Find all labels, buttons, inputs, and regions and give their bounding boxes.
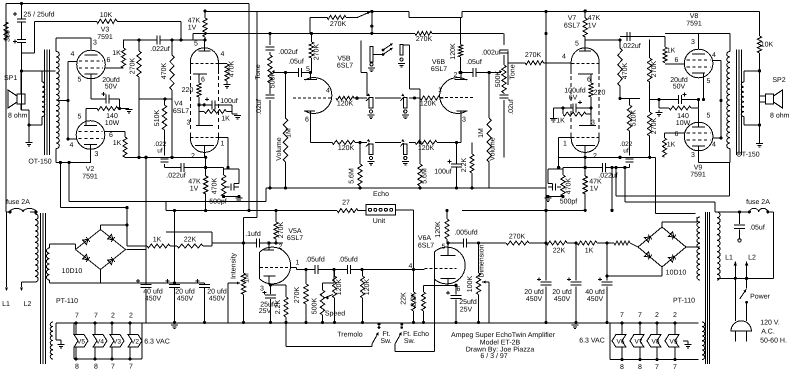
svg-text:7591: 7591 [690, 172, 706, 179]
svg-text:510K: 510K [154, 110, 161, 127]
svg-text:PT-110: PT-110 [56, 298, 78, 305]
svg-text:Sw.: Sw. [404, 338, 415, 345]
svg-text:6: 6 [675, 57, 679, 64]
svg-text:50V: 50V [673, 84, 686, 91]
svg-text:20 ufd: 20 ufd [207, 288, 227, 296]
svg-text:47K: 47K [588, 15, 601, 22]
svg-text:V7: V7 [635, 339, 643, 346]
svg-text:7591: 7591 [82, 174, 98, 181]
svg-text:6.3 VAC: 6.3 VAC [579, 338, 605, 345]
svg-text:Ampeg Super EchoTwin Amplifier: Ampeg Super EchoTwin Amplifier [451, 331, 556, 339]
svg-text:2.2K: 2.2K [411, 292, 418, 307]
svg-text:.02uf: .02uf [507, 99, 515, 115]
svg-text:5: 5 [575, 41, 579, 48]
svg-text:1: 1 [296, 260, 300, 267]
svg-text:20 ufd: 20 ufd [175, 288, 195, 296]
svg-text:Power: Power [750, 294, 771, 301]
svg-text:4: 4 [409, 263, 413, 270]
svg-text:.05uf: .05uf [749, 224, 765, 232]
svg-text:uf: uf [623, 148, 629, 155]
svg-text:10D10: 10D10 [666, 270, 687, 277]
svg-text:22K: 22K [553, 248, 566, 255]
svg-text:270K: 270K [509, 234, 526, 241]
svg-text:270K: 270K [651, 61, 658, 78]
svg-text:7591: 7591 [686, 21, 702, 28]
svg-text:2: 2 [454, 72, 458, 79]
svg-text:1M: 1M [286, 128, 293, 138]
svg-text:.05ufd: .05ufd [338, 256, 358, 264]
svg-text:.022uf: .022uf [150, 45, 170, 53]
svg-text:2: 2 [673, 312, 677, 319]
svg-text:25V: 25V [460, 307, 473, 314]
svg-text:.02uf: .02uf [255, 99, 263, 115]
svg-text:3: 3 [691, 152, 695, 159]
svg-text:2: 2 [593, 153, 597, 160]
svg-text:10K: 10K [761, 42, 774, 49]
svg-text:OT-150: OT-150 [28, 159, 51, 166]
svg-text:270K: 270K [330, 21, 347, 28]
svg-text:47K: 47K [188, 18, 201, 25]
svg-text:1: 1 [563, 141, 567, 148]
svg-text:470K: 470K [566, 178, 573, 195]
svg-text:6SL7: 6SL7 [431, 66, 447, 73]
svg-text:4: 4 [70, 142, 74, 149]
svg-text:450V: 450V [587, 296, 604, 303]
svg-text:330: 330 [5, 30, 12, 42]
svg-text:6SL7: 6SL7 [337, 63, 353, 70]
svg-text:Ft.: Ft. [382, 331, 390, 338]
svg-text:V4: V4 [174, 101, 183, 108]
svg-text:5.6M: 5.6M [422, 168, 429, 184]
svg-text:Speed: Speed [325, 310, 345, 318]
svg-text:5: 5 [78, 114, 82, 121]
svg-text:470K: 470K [161, 63, 168, 80]
svg-text:V6: V6 [617, 339, 625, 346]
svg-text:8: 8 [94, 364, 98, 371]
svg-text:140: 140 [677, 113, 689, 120]
svg-text:Echo: Echo [373, 190, 389, 198]
svg-text:V6B: V6B [432, 59, 446, 66]
svg-text:4: 4 [712, 142, 716, 149]
svg-text:120K: 120K [338, 145, 355, 152]
svg-text:5: 5 [707, 113, 711, 120]
svg-text:120 V.: 120 V. [760, 320, 780, 327]
svg-text:470K: 470K [229, 61, 236, 78]
svg-text:500K: 500K [312, 298, 319, 315]
svg-text:510K: 510K [631, 110, 638, 127]
svg-text:6SL7: 6SL7 [287, 235, 303, 242]
svg-text:270K: 270K [314, 44, 321, 61]
svg-text:1K: 1K [112, 50, 121, 57]
svg-text:V4: V4 [96, 339, 104, 346]
svg-text:6 / 3 / 97: 6 / 3 / 97 [480, 352, 507, 360]
svg-text:V2: V2 [86, 166, 95, 173]
svg-text:4: 4 [71, 51, 75, 58]
svg-text:.002uf: .002uf [481, 49, 501, 57]
svg-text:4: 4 [221, 51, 225, 58]
svg-text:100K: 100K [467, 276, 474, 293]
svg-text:270K: 270K [278, 222, 285, 239]
svg-text:L2: L2 [748, 255, 756, 262]
svg-text:2: 2 [129, 313, 133, 320]
svg-text:1: 1 [221, 141, 225, 148]
svg-text:Model ET-2B: Model ET-2B [480, 339, 521, 347]
svg-text:Unit: Unit [373, 217, 386, 225]
svg-text:V8: V8 [652, 339, 660, 346]
svg-text:20 ufd: 20 ufd [524, 288, 544, 296]
svg-text:1M: 1M [244, 273, 251, 283]
svg-text:5: 5 [194, 41, 198, 48]
svg-text:Tremolo: Tremolo [337, 331, 363, 339]
svg-text:100uf: 100uf [434, 168, 452, 176]
svg-text:5: 5 [707, 78, 711, 85]
svg-text:2: 2 [111, 313, 115, 320]
svg-text:3: 3 [260, 286, 264, 293]
svg-text:5: 5 [78, 77, 82, 84]
svg-text:50V: 50V [105, 84, 118, 91]
svg-text:V2: V2 [131, 339, 139, 346]
svg-text:40 ufd: 40 ufd [585, 288, 605, 296]
svg-text:SP2: SP2 [772, 77, 785, 84]
svg-text:Ft. Echo: Ft. Echo [403, 330, 429, 338]
svg-text:1K: 1K [556, 118, 565, 125]
svg-text:1K: 1K [221, 116, 230, 123]
svg-text:Tone: Tone [255, 64, 262, 79]
svg-text:6: 6 [107, 57, 111, 64]
svg-text:5.6M: 5.6M [349, 168, 356, 184]
svg-text:V8: V8 [690, 13, 699, 20]
svg-text:120K: 120K [435, 221, 442, 238]
svg-text:3: 3 [462, 117, 466, 124]
svg-text:6: 6 [109, 132, 113, 139]
svg-text:2.2K: 2.2K [461, 157, 468, 172]
svg-text:.05ufd: .05ufd [305, 256, 325, 264]
svg-text:L1: L1 [725, 255, 733, 262]
svg-text:470K: 470K [622, 63, 629, 80]
svg-text:8: 8 [638, 364, 642, 371]
svg-text:2: 2 [191, 153, 195, 160]
svg-text:.002uf: .002uf [278, 48, 298, 56]
svg-text:22K: 22K [401, 292, 408, 305]
svg-text:7: 7 [129, 364, 133, 371]
svg-text:25ufd: 25ufd [459, 298, 477, 306]
svg-text:1K: 1K [113, 140, 122, 147]
svg-text:fuse 2A: fuse 2A [6, 198, 30, 206]
svg-text:3: 3 [691, 39, 695, 46]
svg-text:2: 2 [279, 244, 283, 251]
svg-text:20 ufd: 20 ufd [552, 288, 572, 296]
svg-text:7: 7 [111, 364, 115, 371]
svg-text:47K: 47K [188, 179, 201, 186]
svg-text:1K: 1K [153, 237, 162, 244]
svg-text:450V: 450V [554, 296, 571, 303]
svg-text:270K: 270K [294, 287, 301, 304]
svg-text:V9: V9 [694, 165, 703, 172]
svg-text:L1: L1 [2, 301, 10, 308]
svg-text:120K: 120K [364, 279, 371, 296]
svg-text:V5A: V5A [288, 228, 302, 235]
svg-text:PT-110: PT-110 [673, 298, 695, 305]
svg-text:25V: 25V [259, 308, 272, 315]
svg-text:8 ohm: 8 ohm [8, 112, 28, 120]
svg-text:500pf: 500pf [209, 198, 227, 206]
svg-text:22K: 22K [184, 237, 197, 244]
svg-text:.1ufd: .1ufd [245, 230, 261, 238]
svg-text:1: 1 [438, 87, 442, 94]
svg-text:V6A: V6A [418, 235, 432, 242]
svg-text:6SL7: 6SL7 [564, 23, 580, 30]
svg-text:Volume: Volume [489, 137, 497, 160]
svg-text:.05uf: .05uf [288, 58, 304, 66]
svg-text:1K: 1K [667, 142, 676, 149]
svg-text:6V: 6V [569, 95, 578, 102]
svg-text:OT-150: OT-150 [736, 152, 759, 159]
svg-text:1K: 1K [585, 248, 594, 255]
svg-text:7: 7 [94, 313, 98, 320]
svg-text:10D10: 10D10 [62, 268, 83, 275]
svg-text:120K: 120K [420, 101, 437, 108]
svg-text:1V: 1V [190, 186, 199, 193]
svg-text:7591: 7591 [97, 34, 113, 41]
svg-text:140: 140 [106, 113, 118, 120]
svg-text:2: 2 [655, 312, 659, 319]
svg-text:120K: 120K [337, 101, 354, 108]
svg-text:6: 6 [305, 117, 309, 124]
svg-text:7: 7 [75, 313, 79, 320]
svg-text:1V: 1V [590, 186, 599, 193]
svg-text:V3: V3 [101, 27, 110, 34]
svg-text:450V: 450V [145, 296, 162, 303]
svg-text:25 / 25ufd: 25 / 25ufd [23, 11, 54, 19]
svg-text:V7: V7 [568, 15, 577, 22]
svg-text:Sw.: Sw. [380, 338, 391, 345]
svg-text:5: 5 [306, 66, 310, 73]
svg-text:6.3 VAC: 6.3 VAC [144, 339, 170, 346]
svg-text:500K: 500K [270, 72, 277, 89]
svg-text:L2: L2 [24, 301, 32, 308]
svg-text:220: 220 [182, 87, 194, 94]
svg-text:1V: 1V [188, 25, 197, 32]
svg-text:47K: 47K [589, 179, 602, 186]
svg-text:27: 27 [342, 200, 350, 207]
svg-text:3: 3 [95, 151, 99, 158]
svg-text:500K: 500K [495, 71, 502, 88]
svg-text:V9: V9 [670, 339, 678, 346]
svg-text:8: 8 [620, 364, 624, 371]
svg-text:Tone: Tone [510, 64, 517, 79]
svg-text:4: 4 [712, 52, 716, 59]
svg-text:270K: 270K [651, 118, 658, 135]
svg-text:450V: 450V [177, 296, 194, 303]
svg-text:1M: 1M [478, 128, 485, 138]
svg-text:fuse 2A: fuse 2A [746, 198, 770, 206]
svg-text:5: 5 [442, 244, 446, 251]
svg-text:1V: 1V [588, 23, 597, 30]
svg-text:.022uf: .022uf [166, 172, 186, 180]
svg-text:8 ohm: 8 ohm [770, 112, 790, 120]
svg-text:50-60 H.: 50-60 H. [760, 338, 787, 345]
svg-text:500pf: 500pf [560, 198, 578, 206]
svg-text:470K: 470K [212, 178, 219, 195]
svg-text:4: 4 [326, 88, 330, 95]
svg-text:6SL7: 6SL7 [173, 108, 189, 115]
svg-text:270K: 270K [130, 58, 137, 75]
svg-text:120K: 120K [450, 43, 457, 60]
svg-text:450V: 450V [209, 296, 226, 303]
svg-text:10W: 10W [105, 120, 120, 127]
svg-text:Intensity: Intensity [230, 252, 238, 279]
svg-text:uf: uf [157, 148, 163, 155]
svg-text:120K: 120K [336, 279, 343, 296]
svg-text:7: 7 [655, 364, 659, 371]
svg-text:Volume: Volume [275, 137, 283, 160]
svg-text:A.C.: A.C. [761, 329, 775, 336]
svg-text:4: 4 [562, 54, 566, 61]
svg-text:.005ufd: .005ufd [454, 229, 477, 237]
svg-text:7: 7 [673, 364, 677, 371]
svg-text:6: 6 [201, 77, 205, 84]
svg-text:1K: 1K [667, 48, 676, 55]
svg-text:7: 7 [638, 312, 642, 319]
svg-text:6SL7: 6SL7 [418, 243, 434, 250]
svg-text:6: 6 [675, 131, 679, 138]
svg-text:450V: 450V [526, 296, 543, 303]
svg-text:10K: 10K [100, 12, 113, 19]
svg-text:100ufd: 100ufd [564, 87, 586, 95]
svg-text:2.2K: 2.2K [275, 299, 282, 314]
svg-text:.022uf: .022uf [621, 42, 641, 50]
svg-text:40 ufd: 40 ufd [143, 288, 163, 296]
svg-text:V3: V3 [113, 339, 121, 346]
svg-text:SP1: SP1 [4, 75, 17, 82]
svg-text:6: 6 [587, 77, 591, 84]
svg-text:8: 8 [75, 364, 79, 371]
svg-text:7: 7 [620, 312, 624, 319]
svg-text:V5B: V5B [337, 56, 351, 63]
svg-text:270K: 270K [525, 52, 542, 59]
svg-text:100uf: 100uf [220, 97, 238, 105]
svg-text:.05uf: .05uf [466, 58, 482, 66]
svg-text:V5: V5 [77, 339, 85, 346]
svg-text:270K: 270K [416, 36, 433, 43]
svg-text:6: 6 [457, 286, 461, 293]
